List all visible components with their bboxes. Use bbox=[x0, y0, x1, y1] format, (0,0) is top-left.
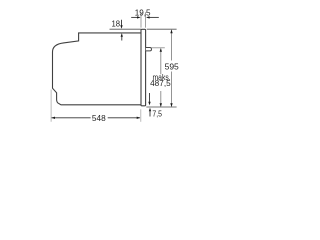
dim 548 line right segment bbox=[108, 117, 140, 119]
oven body outline bbox=[53, 33, 142, 105]
dim 595 down arrow bbox=[170, 103, 172, 107]
niche floor reference line bbox=[146, 106, 176, 108]
dim 19,5 line left segment bbox=[131, 16, 139, 18]
dim 19,5 extension line left bbox=[140, 12, 142, 27]
dim maks 487,5 line lower bbox=[160, 91, 162, 107]
dim 19,5 arrow pointing right bbox=[137, 16, 141, 18]
dim 7,5 up arrow bbox=[149, 108, 151, 112]
dim maks 487,5 line upper bbox=[160, 48, 162, 74]
dim 595 fascia-top extension to right bbox=[147, 28, 177, 30]
svg-text:18: 18 bbox=[112, 18, 121, 28]
svg-text:487,5: 487,5 bbox=[150, 79, 171, 88]
dim 548 extension line right bbox=[140, 109, 142, 122]
front fascia panel bbox=[141, 29, 146, 106]
svg-text:7,5: 7,5 bbox=[152, 108, 162, 118]
dim 548 extension line left bbox=[50, 90, 52, 122]
dim maks 487,5 extension from handle top bbox=[151, 47, 165, 49]
dim 18 fascia-top extension line bbox=[110, 28, 142, 30]
dim 548 right arrow bbox=[137, 117, 141, 119]
dim 595 up arrow bbox=[170, 30, 172, 34]
dim 19,5 arrow pointing left bbox=[146, 16, 150, 18]
dim 18 up arrow bbox=[121, 36, 123, 41]
dim maks 487,5 up arrow bbox=[160, 48, 162, 52]
dim 595 line upper bbox=[171, 30, 173, 61]
dim 7,5 down arrow bbox=[149, 93, 151, 102]
dim 19,5 line right segment bbox=[147, 16, 158, 18]
dim 19,5 extension line right bbox=[145, 12, 147, 27]
dim 18 down arrow bbox=[121, 20, 123, 26]
svg-text:595: 595 bbox=[165, 62, 179, 72]
svg-text:19,5: 19,5 bbox=[135, 7, 151, 17]
dim 548 left arrow bbox=[51, 117, 55, 119]
dim 548 line left segment bbox=[52, 117, 91, 119]
dim 595 line lower bbox=[171, 72, 173, 107]
dim maks 487,5 down arrow bbox=[160, 103, 162, 107]
svg-text:548: 548 bbox=[92, 113, 106, 123]
door handle bbox=[146, 48, 152, 51]
